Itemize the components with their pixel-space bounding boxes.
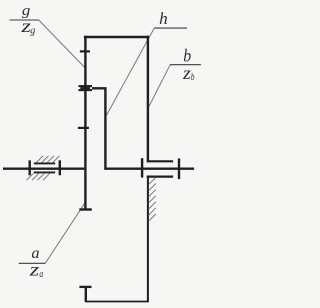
svg-text:g: g <box>30 25 35 36</box>
svg-text:a: a <box>39 269 43 280</box>
svg-text:h: h <box>159 9 168 28</box>
svg-text:z: z <box>182 63 191 83</box>
svg-text:z: z <box>28 260 39 280</box>
svg-text:b: b <box>191 72 195 83</box>
